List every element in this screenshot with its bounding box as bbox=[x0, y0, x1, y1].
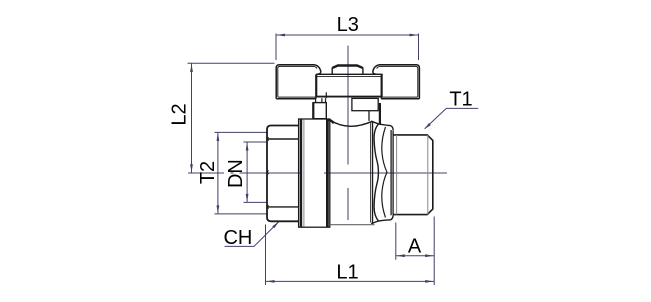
svg-text:L1: L1 bbox=[336, 261, 358, 283]
svg-text:L2: L2 bbox=[169, 103, 191, 125]
svg-text:L3: L3 bbox=[337, 14, 359, 36]
svg-text:A: A bbox=[408, 235, 422, 257]
svg-text:CH: CH bbox=[223, 227, 252, 249]
svg-text:DN: DN bbox=[225, 159, 247, 188]
svg-text:T1: T1 bbox=[449, 89, 472, 111]
svg-text:T2: T2 bbox=[197, 161, 219, 184]
